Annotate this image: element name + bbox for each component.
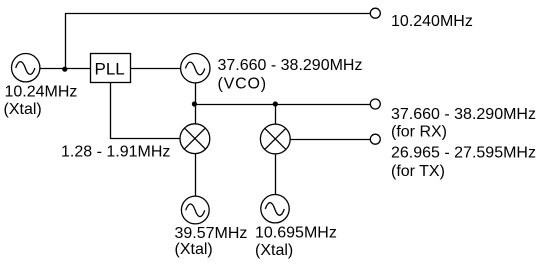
svg-text:(for TX): (for TX) (391, 163, 445, 180)
svg-text:10.240MHz: 10.240MHz (391, 13, 473, 30)
mixer M2 (260, 124, 290, 154)
svg-text:PLL: PLL (95, 60, 125, 79)
svg-text:10.695MHz: 10.695MHz (255, 225, 337, 242)
oscillator X1 10.24MHz reference crystal (12, 53, 40, 81)
svg-text:(for RX): (for RX) (391, 124, 447, 141)
PLL block U1 (91, 54, 131, 83)
oscillator VCO (181, 53, 210, 82)
junction node C (273, 101, 278, 106)
terminal RX output (370, 99, 380, 109)
terminal TX output (370, 134, 380, 144)
svg-text:37.660 - 38.290MHz: 37.660 - 38.290MHz (391, 106, 536, 123)
svg-text:(VCO): (VCO) (218, 76, 267, 93)
svg-text:(Xtal): (Xtal) (175, 241, 213, 258)
terminal 10.240MHz output (370, 8, 380, 18)
wire mixer M1 down to X2 (195, 154, 197, 197)
wire X1 output to junction A (40, 68, 66, 70)
wire mixer M2 to TX terminal (291, 139, 371, 141)
wire node A to PLL input (66, 68, 91, 70)
junction node B (192, 101, 197, 106)
oscillator X3 10.695MHz crystal (261, 195, 289, 223)
wire VCO down to node B (195, 83, 197, 105)
wire mixer M2 down to X3 (275, 154, 277, 195)
svg-text:39.57MHz: 39.57MHz (175, 225, 248, 242)
svg-text:(Xtal): (Xtal) (255, 242, 293, 259)
wire mixer M1 to PLL feedback input (111, 83, 180, 139)
wire node B down to mixer M1 (195, 105, 197, 124)
wire node A up and right to 10.240MHz terminal (66, 14, 371, 69)
svg-text:(Xtal): (Xtal) (4, 101, 42, 118)
mixer M1 (180, 124, 210, 154)
wire node B to RX terminal (196, 104, 371, 106)
svg-text:10.24MHz: 10.24MHz (5, 84, 78, 101)
svg-text:37.660 - 38.290MHz: 37.660 - 38.290MHz (218, 57, 363, 74)
wire PLL to VCO (131, 68, 181, 70)
svg-text:1.28 - 1.91MHz: 1.28 - 1.91MHz (61, 144, 170, 161)
oscillator X2 39.57MHz crystal (181, 196, 209, 224)
svg-text:26.965 - 27.595MHz: 26.965 - 27.595MHz (391, 145, 536, 162)
junction node A (62, 67, 67, 72)
wire node C down to mixer M2 (275, 105, 277, 124)
